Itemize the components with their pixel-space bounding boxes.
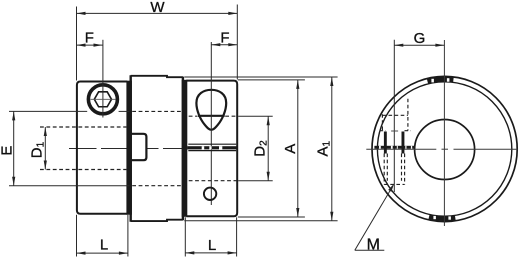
bore circle <box>415 120 475 180</box>
L right <box>184 217 186 256</box>
sleeve (center body) <box>131 76 183 221</box>
svg-text:G: G <box>414 30 426 47</box>
screw centerline cross dash <box>391 130 398 132</box>
D1 dim <box>44 127 46 170</box>
svg-text:L: L <box>208 237 216 254</box>
centerline left view <box>69 148 184 150</box>
F right dim <box>211 44 237 46</box>
A ext <box>238 79 305 81</box>
top band (spider teeth) <box>428 79 454 81</box>
teardrop chord (screw head edge) <box>198 115 225 117</box>
gap band hub1-sleeve <box>126 81 131 215</box>
A1 arrows <box>330 77 333 86</box>
teardrop clamp screw hole (side view) <box>196 90 226 130</box>
clamp screw axis vertical <box>210 42 212 205</box>
hex socket <box>94 92 111 107</box>
centerlines front view <box>366 40 517 226</box>
D2 arrows <box>267 116 270 125</box>
L left <box>76 215 78 257</box>
F left dim <box>77 44 103 46</box>
F right arrows <box>211 43 220 46</box>
F left arrows <box>77 44 86 47</box>
L right arrows <box>185 251 194 254</box>
D2 ext <box>238 115 273 117</box>
gray dash through hex <box>91 98 116 100</box>
E dim <box>13 111 15 185</box>
hidden clamp screw front view <box>380 99 411 185</box>
svg-text:E: E <box>0 146 16 156</box>
hub right (clamp hub) <box>186 81 237 217</box>
outer circle (sleeve OD) <box>372 76 517 221</box>
E arrows <box>12 111 15 120</box>
svg-text:F: F <box>220 29 229 46</box>
D1 dashed bore lines <box>40 127 126 170</box>
set screw circle <box>88 85 117 114</box>
clamp screw exit hole circle <box>204 188 216 200</box>
bottom band <box>429 217 455 219</box>
sleeve right edge + gap band to hub2 <box>182 80 188 217</box>
E ext lines <box>9 110 87 112</box>
black hole bars crossing slit <box>384 132 387 154</box>
svg-text:F: F <box>85 29 94 46</box>
M leader <box>355 187 393 251</box>
W extension lines <box>76 7 78 81</box>
svg-text:A: A <box>282 144 299 154</box>
G dimension <box>394 40 444 192</box>
inner circle (hub OD) <box>377 82 511 216</box>
W arrows <box>77 12 86 15</box>
D2 hidden dashes in hub2 <box>189 116 237 181</box>
screw axis vertical <box>102 40 104 118</box>
sleeve hidden bore dashes <box>132 111 181 185</box>
sleeve left edge <box>129 75 131 222</box>
slit hub2 side view <box>188 143 236 145</box>
L left arrows <box>77 252 86 255</box>
arrowheads <box>12 12 333 255</box>
A arrows <box>296 80 299 89</box>
sleeve claw bump <box>130 134 146 160</box>
A1 ext <box>184 76 337 78</box>
D1 arrows <box>44 127 47 136</box>
svg-text:M: M <box>367 236 380 253</box>
hub left (set screw hub) <box>77 82 127 214</box>
svg-text:L: L <box>100 236 108 253</box>
slit bar front view <box>374 146 415 149</box>
svg-text:W: W <box>150 0 165 16</box>
W dim line <box>77 12 238 14</box>
